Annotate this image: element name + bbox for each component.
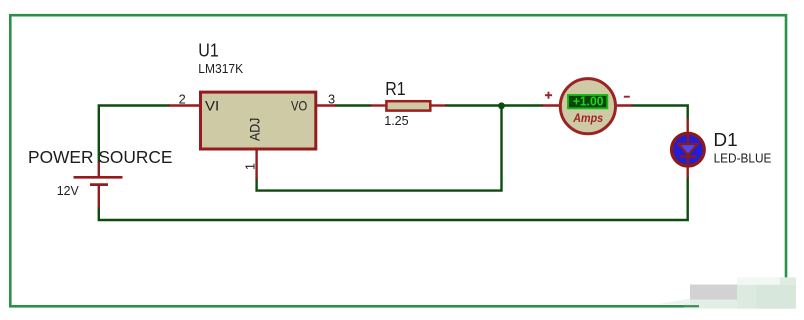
svg-text:ADJ: ADJ xyxy=(247,118,262,141)
svg-text:+1.00: +1.00 xyxy=(573,94,604,109)
svg-text:VO: VO xyxy=(291,98,307,113)
svg-text:POWER SOURCE: POWER SOURCE xyxy=(28,147,173,167)
svg-text:R1: R1 xyxy=(385,79,405,99)
svg-text:VI: VI xyxy=(205,98,219,113)
svg-text:12V: 12V xyxy=(57,183,79,198)
svg-text:3: 3 xyxy=(328,91,335,106)
svg-text:LM317K: LM317K xyxy=(198,61,243,76)
svg-text:U1: U1 xyxy=(198,41,219,61)
svg-text:1: 1 xyxy=(243,163,258,170)
svg-text:LED-BLUE: LED-BLUE xyxy=(714,151,772,166)
svg-text:Amps: Amps xyxy=(572,111,603,125)
svg-text:1.25: 1.25 xyxy=(384,113,409,128)
svg-text:D1: D1 xyxy=(713,130,737,150)
svg-text:2: 2 xyxy=(179,92,186,107)
